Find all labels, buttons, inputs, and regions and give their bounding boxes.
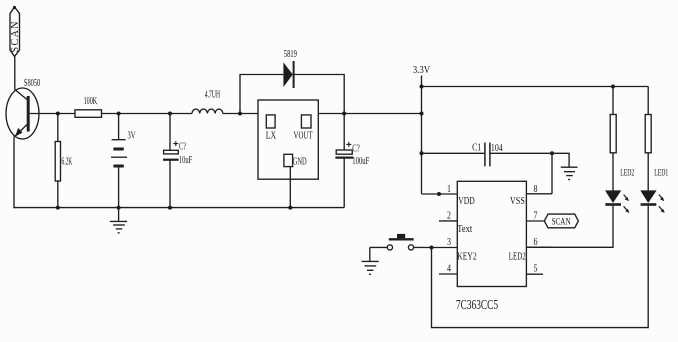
svg-text:3.3V: 3.3V xyxy=(413,65,431,76)
capacitor C? 10uF xyxy=(163,114,193,210)
wire diode bypass left xyxy=(240,75,283,114)
node LED2 rail junction xyxy=(611,85,615,89)
svg-text:3V: 3V xyxy=(128,131,136,142)
svg-text:VOUT: VOUT xyxy=(294,131,313,142)
node diode-bypass junction xyxy=(238,112,242,116)
svg-text:LX: LX xyxy=(266,131,277,142)
svg-text:7: 7 xyxy=(534,211,538,222)
wire GND pin to rail xyxy=(289,167,291,208)
svg-text:3: 3 xyxy=(447,237,451,248)
resistor (LED2) xyxy=(610,87,616,191)
regulator module U? xyxy=(258,100,318,179)
svg-text:Text: Text xyxy=(457,224,472,235)
svg-text:SCAN: SCAN xyxy=(552,218,571,228)
node GND rail junction xyxy=(288,206,292,210)
wire LED2 cathode to pin6 xyxy=(526,206,613,248)
svg-text:S8050: S8050 xyxy=(24,78,40,89)
svg-text:GND: GND xyxy=(293,157,307,168)
resistor 100K xyxy=(75,96,102,117)
inductor 4.7UH xyxy=(192,90,223,114)
ground (button) xyxy=(362,247,379,274)
svg-text:LED2: LED2 xyxy=(509,251,526,262)
capacitor C? 100uF xyxy=(335,114,369,208)
wire bottom rail xyxy=(13,207,344,209)
switch S? pushbutton xyxy=(370,234,432,250)
wire collector xyxy=(14,57,16,90)
svg-text:5819: 5819 xyxy=(284,49,297,60)
svg-text:6.2K: 6.2K xyxy=(62,157,73,168)
svg-text:LED1: LED1 xyxy=(654,169,668,179)
wire inductor to module xyxy=(223,113,258,115)
battery 3V xyxy=(111,114,136,210)
svg-text:100K: 100K xyxy=(84,96,98,107)
svg-text:7C363CC5: 7C363CC5 xyxy=(456,297,498,312)
wire emitter down xyxy=(13,137,15,209)
node battery junction xyxy=(117,112,121,116)
svg-text:100uF: 100uF xyxy=(352,156,369,167)
diode D1 5819 xyxy=(283,49,297,88)
svg-text:C1: C1 xyxy=(472,143,481,154)
node base junction xyxy=(56,112,60,116)
LED2 xyxy=(605,169,634,214)
resistor (LED1) xyxy=(645,87,651,191)
svg-text:8: 8 xyxy=(534,184,538,195)
node output junction xyxy=(342,112,346,116)
wire main xyxy=(102,113,193,115)
power 3.3V xyxy=(413,65,458,196)
svg-text:4.7UH: 4.7UH xyxy=(205,90,220,101)
svg-text:10uF: 10uF xyxy=(179,155,193,166)
svg-text:4: 4 xyxy=(447,264,451,275)
LED1 xyxy=(640,169,668,214)
svg-text:VSS: VSS xyxy=(510,196,525,207)
svg-text:2: 2 xyxy=(447,211,451,222)
svg-text:KEY2: KEY2 xyxy=(457,251,476,262)
wire module output xyxy=(318,113,421,115)
IC U1 7C363CC5 xyxy=(432,181,553,311)
wire base xyxy=(30,113,75,115)
svg-text:1: 1 xyxy=(447,184,451,195)
resistor 6.2K xyxy=(55,114,72,210)
svg-text:5: 5 xyxy=(534,264,538,275)
svg-text:SCAN: SCAN xyxy=(10,22,21,53)
node 10uF junction xyxy=(168,112,172,116)
svg-text:C?: C? xyxy=(352,144,360,155)
svg-text:C?: C? xyxy=(179,142,186,153)
net label SCAN (vertical, top-left) xyxy=(10,6,21,57)
ground (battery) xyxy=(110,208,127,233)
wire 3.3V top rail xyxy=(422,86,649,88)
svg-text:104: 104 xyxy=(491,143,503,154)
ground (C1) xyxy=(552,153,578,179)
svg-text:6: 6 xyxy=(534,237,538,248)
svg-text:LED2: LED2 xyxy=(620,169,634,179)
wire pin8 riser xyxy=(551,153,553,194)
transistor Q1 S8050 xyxy=(6,78,40,139)
capacitor C1 104 xyxy=(422,143,555,167)
net label SCAN (pin 7) xyxy=(544,214,578,228)
wire LED1 cathode to bottom xyxy=(432,206,649,328)
wire diode bypass right xyxy=(294,75,345,114)
node pin3 junction xyxy=(430,246,434,250)
svg-text:VDD: VDD xyxy=(458,196,475,207)
